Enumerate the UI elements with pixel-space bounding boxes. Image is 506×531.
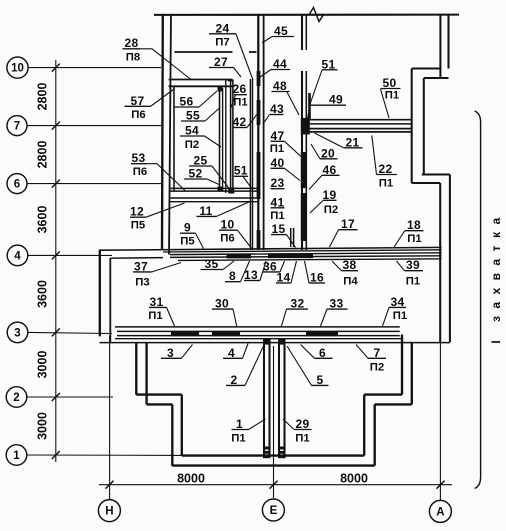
svg-text:51: 51 <box>234 163 248 177</box>
wire axis stub A <box>439 343 441 500</box>
svg-text:6: 6 <box>14 179 20 191</box>
node label 40 <box>271 156 301 181</box>
svg-text:П1: П1 <box>148 310 162 322</box>
node dim ticks left <box>52 64 60 72</box>
node axis circle 4 <box>7 245 28 266</box>
node label 39/П1 <box>397 258 424 288</box>
node label 49 <box>308 93 347 119</box>
wire right staircase outline <box>363 395 365 456</box>
svg-text:10: 10 <box>11 63 24 75</box>
node label 23 <box>271 176 285 190</box>
node label 32 <box>281 297 308 328</box>
svg-text:П8: П8 <box>126 52 140 64</box>
svg-text:А: А <box>436 506 444 518</box>
wire vertical dim line <box>55 60 57 462</box>
node label 44 <box>258 57 290 79</box>
wire axis line 6 <box>28 183 162 185</box>
node axis circle 6 <box>7 174 27 194</box>
wire top partition <box>175 51 233 53</box>
wire axis line 7 <box>28 125 162 127</box>
node label 31/П1 <box>148 295 174 326</box>
svg-text:3: 3 <box>14 327 20 339</box>
svg-text:4: 4 <box>14 250 21 262</box>
svg-text:3600: 3600 <box>36 206 50 234</box>
node label 20 <box>311 144 338 160</box>
node stairwell wall blacks <box>301 152 306 188</box>
wire axis-4 band lines <box>100 247 442 250</box>
svg-text:П1: П1 <box>385 90 399 102</box>
wire axis-3 band lines <box>115 326 400 328</box>
node break symbol <box>309 8 324 22</box>
node label 28/П8 <box>123 36 192 80</box>
node label 9/П5 <box>180 221 204 249</box>
wire axis stub H <box>109 336 111 499</box>
svg-text:3000: 3000 <box>36 351 50 379</box>
wire left staircase outline <box>135 343 137 395</box>
node axis circle 10 <box>7 57 28 78</box>
svg-text:П3: П3 <box>135 277 149 289</box>
node label 45 <box>262 24 294 43</box>
wire wall end cap <box>228 80 234 82</box>
node label 30 <box>212 297 237 328</box>
node label 7/П2 <box>356 345 386 374</box>
wire axis line 10 <box>28 67 161 69</box>
wire central wall pairs <box>263 343 265 456</box>
wire room bottom double walls <box>170 187 258 189</box>
node axis circle 3 <box>7 322 28 343</box>
node central wall bottom stripes <box>263 447 271 450</box>
node label 51 left <box>234 163 253 189</box>
node label 41/П1 <box>270 195 284 222</box>
node axis circle A <box>429 500 451 522</box>
node central wall top blacks <box>263 338 271 345</box>
node label 21 <box>315 133 363 149</box>
node label 3 <box>161 345 193 360</box>
svg-text:П1: П1 <box>295 433 309 445</box>
node label 42 <box>233 111 260 129</box>
svg-text:П6: П6 <box>133 166 147 178</box>
node label 14 <box>276 261 297 285</box>
wire stub wall <box>290 228 292 247</box>
wire corridor wall lines <box>230 80 232 189</box>
node label 25 <box>189 154 231 192</box>
node label 2 <box>226 346 264 387</box>
svg-text:П1: П1 <box>393 310 407 322</box>
wire upper-left wall inner <box>169 15 171 255</box>
node label 1/П1 <box>231 417 265 445</box>
wire right wall pair <box>439 183 441 342</box>
svg-text:П2: П2 <box>185 139 199 151</box>
svg-text:28: 28 <box>125 36 139 50</box>
node axis circle H <box>98 500 120 522</box>
wire stairwell right wall upper <box>301 15 303 51</box>
wire bottom wall <box>182 454 364 456</box>
svg-text:П6: П6 <box>131 109 145 121</box>
node label 13 <box>244 261 266 282</box>
node label 11 <box>197 202 251 218</box>
node label 17 <box>330 217 358 247</box>
svg-text:П4: П4 <box>343 276 358 288</box>
svg-text:8000: 8000 <box>340 472 368 486</box>
wire right notch step1 <box>412 67 441 69</box>
node label 51 right <box>310 57 338 104</box>
wire axis line 2 <box>27 396 113 398</box>
node label 8 <box>225 261 250 283</box>
node axis circle 7 <box>7 116 27 136</box>
wire axis stub E <box>273 346 275 498</box>
node label 38/П4 <box>332 258 358 288</box>
node label 54/П2 <box>180 124 221 151</box>
svg-text:П1: П1 <box>270 143 284 155</box>
node dim ticks bottom <box>106 481 114 489</box>
node stair wall blacks <box>257 71 261 86</box>
svg-text:П5: П5 <box>180 235 194 247</box>
node label 35 <box>201 257 235 271</box>
svg-text:П2: П2 <box>370 361 384 373</box>
node label 16 <box>305 261 326 285</box>
svg-text:8000: 8000 <box>177 472 205 486</box>
node label 12/П5 <box>130 203 185 231</box>
node label 37/П3 <box>133 259 181 288</box>
node room corner blacks <box>218 87 223 92</box>
node panel 51 <box>308 93 311 120</box>
svg-text:П5: П5 <box>131 219 145 231</box>
wire room left inner line <box>173 86 175 191</box>
wire top edge of building <box>154 14 459 16</box>
wire double bands to right <box>303 119 413 121</box>
svg-text:П1: П1 <box>379 178 393 190</box>
svg-text:2800: 2800 <box>36 83 50 111</box>
node panel black on axis-4 band <box>227 254 252 259</box>
node label 27 <box>209 55 241 77</box>
node label 18/П1 <box>394 218 424 247</box>
wire right notch step2 <box>412 182 441 184</box>
node panel black on axis-3 band <box>171 331 199 336</box>
svg-text:П1: П1 <box>407 233 421 245</box>
svg-text:П7: П7 <box>215 37 229 49</box>
node label 10/П6 <box>219 218 252 249</box>
svg-text:П1: П1 <box>233 97 247 109</box>
svg-text:П2: П2 <box>324 204 338 216</box>
svg-text:2: 2 <box>13 392 19 404</box>
svg-text:7: 7 <box>14 121 20 133</box>
svg-text:Е: Е <box>270 505 278 517</box>
svg-text:П1: П1 <box>231 433 245 445</box>
svg-text:3600: 3600 <box>36 280 50 308</box>
node label 56 <box>174 91 217 109</box>
wire room top wall double <box>169 79 233 81</box>
wire room right lines <box>219 88 221 191</box>
node label 46 <box>309 163 340 190</box>
node axis circle 2 <box>6 387 27 408</box>
wire upper-left wall outer <box>161 15 164 250</box>
node axis circle E <box>262 499 284 521</box>
node label 4 <box>223 344 248 360</box>
node label 57/П6 <box>125 89 175 121</box>
node label 36 <box>263 259 285 273</box>
node label 50/П1 <box>381 76 401 118</box>
node label 29/П1 <box>283 417 312 445</box>
wire stair wall pair <box>257 15 259 251</box>
node label 5 <box>287 346 329 387</box>
svg-text:П1: П1 <box>270 210 284 222</box>
node label 52 <box>184 167 219 185</box>
node label 55 <box>181 108 220 123</box>
node label 33 <box>320 297 348 328</box>
node label 48 <box>272 79 300 115</box>
wire middle-band left wall <box>99 250 101 337</box>
svg-text:П1: П1 <box>406 276 420 288</box>
node axis circle 1 <box>6 445 27 466</box>
wire right notch verticals <box>411 69 413 184</box>
wire narrow room right wall <box>249 79 251 250</box>
svg-text:Н: Н <box>105 506 113 518</box>
node right bracket <box>475 111 481 489</box>
node label 24/П7 <box>209 21 253 80</box>
node label 47/П1 <box>270 129 302 157</box>
wire axis line 1 <box>27 454 181 456</box>
node label 19/П2 <box>310 188 338 216</box>
svg-text:2800: 2800 <box>36 141 50 169</box>
svg-text:3000: 3000 <box>36 412 50 440</box>
wire upper-right wall pair <box>439 15 441 78</box>
wire stairwell right wall lower <box>301 71 303 250</box>
node label 43 <box>263 102 284 124</box>
node label 6 <box>301 345 333 360</box>
node label 53/П6 <box>131 151 185 190</box>
node label 15 <box>271 222 296 247</box>
svg-text:І захватка: І захватка <box>489 210 503 343</box>
node label 22/П1 <box>372 136 397 190</box>
wire bottom dim line <box>99 484 452 486</box>
node label 26/П1 <box>231 82 248 109</box>
svg-text:П6: П6 <box>220 232 234 244</box>
node label 34/П1 <box>383 295 408 326</box>
wire axis line 4 <box>28 254 112 256</box>
wire axis line 3 <box>28 332 112 333</box>
svg-text:1: 1 <box>13 450 20 462</box>
